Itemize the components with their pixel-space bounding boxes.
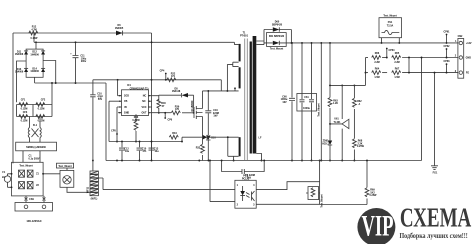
svg-text:1N4148: 1N4148 <box>172 90 181 93</box>
svg-text:CP61: CP61 <box>444 31 451 34</box>
resistor R30 <box>158 95 160 101</box>
capacitor C13 <box>149 142 155 161</box>
svg-text:Test_Mount: Test_Mount <box>383 15 396 18</box>
resistor R34 <box>182 137 239 141</box>
svg-text:TL431: TL431 <box>334 121 342 124</box>
svg-text:CR6842S(AP-T1): CR6842S(AP-T1) <box>130 87 149 90</box>
varistor RV2 <box>27 170 33 177</box>
node CP4 <box>165 74 167 80</box>
connector CN2 <box>458 39 464 79</box>
capacitor C61 box <box>297 94 317 112</box>
wire secondary +12V rail <box>291 42 458 44</box>
svg-text:47: 47 <box>162 105 165 108</box>
svg-text:R64: R64 <box>375 67 380 70</box>
resistor R32 <box>202 130 204 144</box>
logo VIP circle <box>357 208 395 244</box>
svg-text:A: A <box>359 103 361 106</box>
wire TL431 block top <box>330 58 366 86</box>
diode D10 <box>206 136 210 141</box>
svg-text:VCC: VCC <box>141 106 146 109</box>
svg-text:1N4005: 1N4005 <box>115 27 124 30</box>
fuse F1 <box>8 174 12 188</box>
svg-text:CF1: CF1 <box>21 99 26 102</box>
svg-text:471: 471 <box>171 75 176 78</box>
resistor R39 <box>149 112 172 114</box>
wire bridge minus bottom <box>35 77 106 83</box>
wire T1 aux loop <box>228 137 239 160</box>
node CP6 <box>164 117 166 119</box>
wire IC pin3 drop <box>117 107 118 142</box>
wire tap to drain <box>227 64 232 91</box>
varistor RV1 <box>19 170 25 177</box>
svg-text:R66: R66 <box>375 52 380 55</box>
wire opto collector <box>256 182 319 190</box>
svg-text:1: 1 <box>237 184 239 187</box>
wire opto LED anode <box>103 189 235 191</box>
svg-text:100-120VAC: 100-120VAC <box>26 219 41 223</box>
svg-text:R34: R34 <box>172 132 177 135</box>
node minus junctions <box>55 82 57 84</box>
svg-text:0.12M: 0.12M <box>38 120 45 123</box>
node CP61 <box>446 35 448 43</box>
svg-text:S9B61(s)-M09230: S9B61(s)-M09230 <box>26 146 46 149</box>
svg-text:0.1u 305V: 0.1u 305V <box>28 157 39 160</box>
svg-text:2.2M: 2.2M <box>374 61 379 64</box>
optocoupler PC1 <box>235 180 256 208</box>
capacitor C11 <box>73 42 79 83</box>
svg-text:CP64: CP64 <box>389 49 396 52</box>
svg-text:R65: R65 <box>395 52 400 55</box>
node CP5 <box>116 133 118 135</box>
svg-text:Z1: Z1 <box>36 173 39 176</box>
svg-text:471: 471 <box>143 150 148 153</box>
thermistor RT1 box <box>60 170 74 187</box>
resistor R63 <box>329 43 331 98</box>
svg-text:VIP: VIP <box>362 210 394 242</box>
svg-text:CN2: CN2 <box>458 35 463 38</box>
resistor R66 <box>366 57 369 59</box>
svg-text:1N4006: 1N4006 <box>15 53 24 56</box>
svg-text:PT-B51: PT-B51 <box>240 35 249 38</box>
svg-text:6.2RW: 6.2RW <box>132 119 140 122</box>
resistor CF2 <box>36 103 45 107</box>
svg-text:FL1: FL1 <box>33 124 38 127</box>
svg-text:CP62: CP62 <box>444 45 451 48</box>
svg-text:CP6: CP6 <box>167 119 172 122</box>
resistor R68 <box>353 139 357 148</box>
svg-text:10u: 10u <box>125 150 130 153</box>
fuse FS1 box <box>379 18 402 38</box>
svg-text:IB: IB <box>124 106 127 109</box>
wire gnd rail <box>106 160 422 162</box>
svg-text:OUT: OUT <box>141 112 147 115</box>
svg-text:SBP6420: SBP6420 <box>272 24 283 27</box>
svg-text:R67: R67 <box>395 67 400 70</box>
svg-text:2GD: 2GD <box>124 95 129 98</box>
resistor CF3 <box>19 115 28 119</box>
diode D8 <box>152 95 194 113</box>
capacitor C16 <box>205 91 211 135</box>
node CP7 <box>234 89 236 91</box>
capacitor C62 <box>309 43 314 161</box>
svg-text:1000u: 1000u <box>303 107 310 110</box>
svg-text:4.7M: 4.7M <box>31 28 36 31</box>
resistor R65 <box>382 57 387 59</box>
wire output branch 3 <box>320 43 322 161</box>
resistor R36 <box>135 114 137 122</box>
capacitor C10a <box>90 80 95 171</box>
svg-text:Test_Mount: Test_Mount <box>321 194 324 207</box>
svg-text:0.12M: 0.12M <box>38 108 45 111</box>
node CP63 <box>446 65 448 73</box>
wire RT1 to TP2 <box>67 168 90 192</box>
wire top rail L <box>13 32 152 34</box>
resistor R62 <box>353 85 355 98</box>
svg-text:R32: R32 <box>196 147 201 150</box>
svg-text:470: 470 <box>175 108 180 111</box>
node CP64 <box>386 49 388 58</box>
inductor FL1 <box>28 128 41 138</box>
svg-text:CF2: CF2 <box>41 99 46 102</box>
svg-text:10u: 10u <box>154 150 159 153</box>
svg-text:2: 2 <box>237 204 239 207</box>
svg-text:3: 3 <box>253 204 255 207</box>
svg-text:+12V: +12V <box>466 42 472 45</box>
svg-text:50V: 50V <box>98 98 103 101</box>
svg-text:1N4006: 1N4006 <box>30 70 39 73</box>
svg-text:СХЕМА: СХЕМА <box>400 203 471 233</box>
node rail B bridge tap <box>35 41 37 43</box>
svg-text:FB: FB <box>124 100 127 103</box>
svg-text:GND: GND <box>124 112 130 115</box>
diode D61 <box>267 33 287 47</box>
resistor CF4 <box>36 115 45 119</box>
svg-text:0.12M: 0.12M <box>21 120 28 123</box>
svg-text:CP63: CP63 <box>444 60 451 63</box>
wire GND return <box>422 58 458 161</box>
svg-text:Test_Mount: Test_Mount <box>19 165 32 168</box>
wire bottom loop vertical <box>319 161 321 205</box>
resistor R22 <box>167 78 176 82</box>
wire IC pin2 drop <box>109 101 118 141</box>
svg-text:CN1: CN1 <box>29 198 34 201</box>
svg-text:Test_Mount: Test_Mount <box>270 48 283 51</box>
svg-text:NC: NC <box>142 100 146 103</box>
wire bottom loop <box>320 204 367 206</box>
svg-text:Подборка лучших схем!!!: Подборка лучших схем!!! <box>400 233 468 240</box>
resistor CF1 <box>19 103 28 107</box>
capacitor C6 snubber <box>222 161 265 175</box>
wire opto LED cathode <box>210 161 235 202</box>
wire left edge vertical <box>12 33 14 163</box>
svg-text:WF11: WF11 <box>87 186 90 193</box>
wire bridge top tap <box>35 42 37 49</box>
svg-text:LF: LF <box>259 137 262 140</box>
wire IC pin1 to VCC rail <box>117 80 119 96</box>
resistor R69 <box>366 161 368 188</box>
svg-text:D61 SBP6420: D61 SBP6420 <box>269 35 285 38</box>
svg-text:1N4006: 1N4006 <box>30 53 39 56</box>
svg-text:T2.5A: T2.5A <box>387 24 394 27</box>
svg-text:Z2: Z2 <box>36 184 39 187</box>
filter module box <box>16 142 57 151</box>
resistor R70 box <box>308 187 319 200</box>
resistor R64 <box>366 72 369 74</box>
svg-text:2.2M: 2.2M <box>394 61 399 64</box>
thermistor NT1 <box>19 182 25 189</box>
svg-text:2A: 2A <box>2 176 5 179</box>
wire T1 secondary bottom stub <box>256 154 261 161</box>
diode D14 <box>41 68 45 72</box>
wire opto emitter <box>256 203 319 205</box>
svg-text:1.2K: 1.2K <box>333 102 338 105</box>
zener ZD61 <box>328 141 332 146</box>
op-amp U61 TL431 <box>341 85 343 119</box>
svg-text:+: + <box>70 53 72 56</box>
wire CF net <box>17 83 53 128</box>
wire box to RT1 <box>43 173 60 175</box>
diode D11 <box>24 51 28 55</box>
IC U1 CR6842S <box>122 90 149 116</box>
svg-text:Test_Mount: Test_Mount <box>58 165 71 168</box>
capacitor C10 <box>137 142 143 161</box>
transistor Q1 <box>193 107 195 118</box>
wire WF1 right to opto <box>98 178 103 190</box>
input protection box <box>12 162 44 196</box>
svg-text:CP5: CP5 <box>111 130 116 133</box>
svg-text:Q1 2N60C: Q1 2N60C <box>191 100 194 112</box>
svg-text:1kV: 1kV <box>213 115 218 118</box>
test point box TP2 <box>57 163 74 168</box>
capacitor C60 <box>289 43 295 161</box>
svg-text:FG: FG <box>466 72 469 75</box>
thermistor NT2 <box>27 182 33 189</box>
wire primary gnd drop <box>105 83 107 161</box>
svg-text:200v: 200v <box>81 60 87 63</box>
svg-text:0.25W: 0.25W <box>357 145 365 148</box>
wire VCC rail to transformer <box>93 80 239 91</box>
svg-text:NC: NC <box>143 95 147 98</box>
wire T1 secondary top stubs <box>256 30 264 45</box>
diode D12 <box>41 51 45 55</box>
capacitor C12 <box>109 141 182 143</box>
node CP62 <box>446 50 448 58</box>
wire startup vertical <box>151 33 153 161</box>
connector WF1 <box>90 171 98 196</box>
diode D13 <box>24 68 28 72</box>
svg-text:F1: F1 <box>2 171 5 174</box>
connector CN1 <box>15 203 53 212</box>
svg-text:PC123: PC123 <box>242 178 250 181</box>
diode D9 <box>203 135 208 140</box>
IC pins <box>118 96 152 113</box>
wire rail B <box>33 33 35 42</box>
wire box to CN1 <box>26 196 44 203</box>
svg-text:1.5M: 1.5M <box>394 76 399 79</box>
svg-text:C61: C61 <box>304 96 309 99</box>
svg-text:16V: 16V <box>282 101 287 104</box>
wire filter to input box <box>23 151 40 163</box>
ground FG earth symbol <box>431 73 438 170</box>
svg-text:HZ9.1: HZ9.1 <box>322 142 329 145</box>
resistor R67 <box>382 72 387 74</box>
resistor R12 <box>29 31 38 35</box>
wire bridge AC right <box>43 61 56 84</box>
svg-text:(WF1): (WF1) <box>91 198 98 201</box>
svg-text:CP4: CP4 <box>160 70 165 73</box>
diode D60 <box>264 30 291 43</box>
svg-text:FG1: FG1 <box>433 172 438 175</box>
wire T1 primary tap bracket <box>233 62 239 66</box>
bridge rectifier outline <box>26 49 43 77</box>
svg-text:Test_Mount: Test_Mount <box>317 103 320 116</box>
diode D6 <box>116 31 123 36</box>
svg-text:4: 4 <box>253 184 255 187</box>
svg-text:GND: GND <box>466 57 472 60</box>
svg-text:CF3: CF3 <box>23 111 28 114</box>
wire bridge AC left <box>17 61 27 102</box>
svg-text:1.5M: 1.5M <box>374 76 379 79</box>
svg-text:0.25W: 0.25W <box>370 194 378 197</box>
